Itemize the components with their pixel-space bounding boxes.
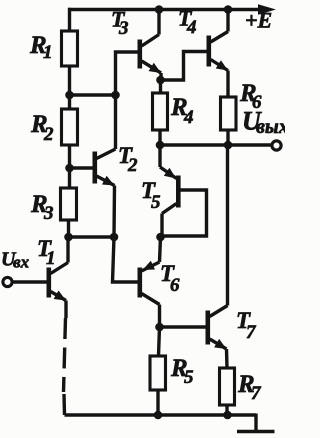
junction dot A	[65, 91, 74, 100]
junction dot L	[223, 411, 232, 420]
label R1	[29, 32, 53, 63]
label Uvh	[1, 249, 30, 272]
svg-text:3: 3	[118, 18, 129, 39]
wire R2 bottom	[68, 145, 71, 168]
wire T2 base	[70, 166, 94, 169]
resistor R7	[220, 368, 235, 405]
svg-text:4: 4	[183, 107, 194, 128]
junction dot K	[154, 411, 163, 420]
wire T3 collector to rail	[157, 10, 160, 35]
label T2	[118, 143, 138, 176]
svg-text:3: 3	[43, 203, 54, 224]
label R5	[170, 355, 194, 388]
ground	[237, 414, 275, 432]
label R3	[30, 191, 54, 224]
svg-text:2: 2	[43, 124, 54, 145]
junction dot E	[110, 233, 119, 242]
wire node F to T4 base	[161, 52, 208, 81]
resistor R1	[62, 31, 78, 66]
transistor T1	[47, 263, 68, 301]
junction dot B	[111, 91, 120, 100]
junction dot C	[65, 164, 74, 173]
junction dot I	[156, 233, 165, 242]
wire R6 bottom	[226, 130, 229, 145]
junction dot rail T3	[155, 5, 164, 14]
label T5	[141, 178, 161, 213]
label T3	[111, 7, 129, 40]
wire T2 emitter down	[112, 186, 116, 238]
svg-text:вх: вх	[13, 253, 30, 272]
svg-text:1: 1	[43, 42, 53, 63]
wire R5 bottom	[156, 390, 159, 415]
wire node D horizontal	[69, 235, 115, 238]
transistor T3	[138, 35, 161, 74]
wire T6 collector down	[158, 305, 161, 328]
wire node A horizontal	[70, 93, 116, 96]
svg-text:6: 6	[170, 275, 180, 296]
label R4	[170, 94, 194, 128]
resistor R4	[153, 93, 168, 130]
label R7	[237, 371, 262, 404]
wire R7 bottom	[225, 405, 228, 415]
wire R3 bottom	[67, 220, 70, 237]
junction dot G	[156, 141, 165, 150]
svg-text:вых: вых	[256, 116, 285, 138]
wire T4 collector to rail	[226, 10, 229, 32]
wire T7 emitter to R7	[225, 349, 229, 368]
svg-text:7: 7	[246, 322, 257, 343]
wire T1 base	[12, 280, 47, 283]
svg-text:5: 5	[184, 367, 194, 388]
transistor T2	[93, 149, 116, 186]
wire node B up to T3 base	[116, 52, 139, 95]
wire T1 emitter solid	[64, 301, 67, 319]
label R6	[239, 80, 262, 113]
junction dot H output	[224, 141, 233, 150]
wire T7 base	[160, 325, 207, 328]
wire T1 emitter lower solid	[62, 394, 66, 415]
transistor T6	[138, 237, 161, 305]
label T1	[37, 236, 56, 269]
label T7	[236, 308, 257, 343]
wire bottom rail	[65, 413, 257, 416]
resistor R3	[61, 188, 77, 220]
wire T4 emitter to R6	[226, 71, 229, 98]
junction dot D	[64, 233, 73, 242]
wire T7 collector up to output node	[226, 145, 229, 306]
terminal Uvyh	[272, 141, 281, 150]
junction dot J	[155, 323, 164, 332]
wire T3 emitter down	[159, 73, 162, 80]
wire J to R5	[159, 327, 160, 356]
junction dot rail T4	[224, 5, 233, 14]
junction dot F	[156, 76, 165, 85]
svg-text:+E: +E	[245, 8, 272, 33]
node +E rail arrow	[258, 4, 276, 15]
transistor T5	[160, 145, 207, 237]
label Uvyh	[242, 107, 289, 139]
wire R1 bottom	[68, 66, 71, 95]
wire R4 bottom	[158, 130, 161, 145]
svg-text:4: 4	[186, 17, 197, 38]
svg-text:7: 7	[251, 383, 262, 404]
terminal Uvh input	[3, 277, 12, 286]
wire node E to T6 base	[113, 237, 139, 282]
wire C to R3	[68, 168, 71, 188]
wire rail to R1	[68, 8, 71, 31]
label R2	[30, 111, 54, 145]
resistor R6	[221, 97, 237, 130]
label T4	[178, 6, 197, 39]
wire output	[160, 143, 272, 146]
svg-text:2: 2	[127, 155, 138, 176]
wire T1 collector up	[66, 237, 69, 263]
wire T1 emitter dashed	[64, 318, 66, 392]
label T6	[160, 261, 180, 296]
svg-text:5: 5	[151, 192, 161, 213]
transistor T7	[206, 306, 228, 350]
wire F to R4	[159, 80, 162, 93]
wire node B down to T2 collector	[114, 95, 117, 149]
wire +E top rail	[68, 8, 259, 11]
transistor T4	[207, 32, 228, 71]
resistor R2	[62, 109, 78, 145]
resistor R5	[150, 356, 166, 390]
svg-text:1: 1	[46, 248, 56, 269]
wire A to R2	[68, 95, 71, 109]
